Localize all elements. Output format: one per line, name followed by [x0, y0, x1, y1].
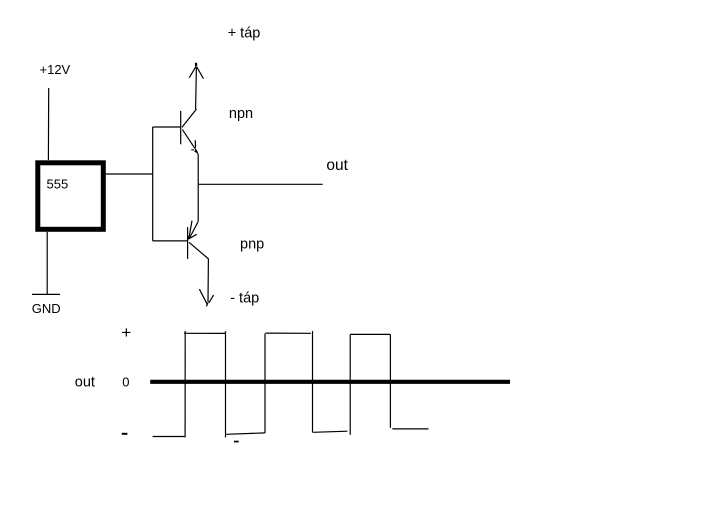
wave rising edge 2	[264, 333, 266, 433]
svg-text:out: out	[75, 375, 95, 391]
wire npn collector to +supply with arrow	[189, 63, 203, 109]
wave tail segment	[392, 428, 428, 430]
wave rising edge 3	[349, 334, 351, 434]
ground	[32, 293, 60, 295]
svg-text:GND: GND	[32, 301, 61, 316]
wave low segment 2	[226, 433, 265, 434]
svg-text:+: +	[121, 323, 131, 342]
wire +12V to 555	[47, 88, 49, 160]
wave rising edge 1	[184, 331, 186, 437]
svg-text:- táp: - táp	[230, 290, 259, 306]
label - (waveform bottom)	[234, 441, 239, 443]
wire base bus vertical	[152, 127, 154, 241]
wave low segment 1	[153, 436, 185, 438]
transistor Q1 npn	[181, 109, 199, 155]
wave falling edge 1	[225, 331, 227, 437]
waveform square wave	[153, 331, 429, 437]
label - (waveform left)	[122, 433, 128, 435]
svg-text:555: 555	[47, 177, 69, 192]
wire to pnp base	[153, 240, 188, 242]
svg-text:0: 0	[122, 375, 129, 390]
svg-text:out: out	[326, 157, 348, 174]
IC U1 555 timer box	[38, 163, 104, 230]
wave low segment 3	[313, 431, 347, 432]
wire 555 output	[106, 173, 153, 175]
wave high segment 1	[184, 332, 226, 334]
svg-text:+ táp: + táp	[228, 26, 261, 42]
wave falling edge 3	[389, 334, 391, 427]
svg-text:pnp: pnp	[240, 237, 264, 253]
wave high segment 2	[266, 332, 311, 334]
zero axis thick line	[150, 380, 510, 384]
wave high segment 3	[350, 333, 390, 335]
wire out	[198, 183, 323, 185]
wire to npn base	[153, 126, 181, 128]
svg-text:+12V: +12V	[40, 62, 71, 77]
transistor Q2 pnp	[188, 221, 209, 259]
wave falling edge 2	[312, 331, 314, 433]
wire pnp collector to -supply with arrow	[199, 259, 213, 306]
wire emitter rail	[197, 155, 199, 222]
wire 555 to ground	[46, 232, 48, 294]
svg-text:npn: npn	[229, 106, 253, 122]
